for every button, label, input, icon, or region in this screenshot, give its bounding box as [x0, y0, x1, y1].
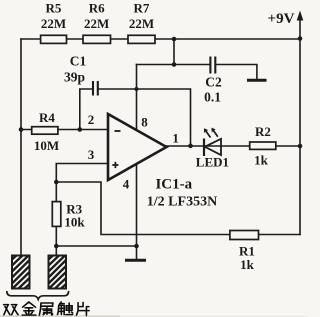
- svg-text:2: 2: [88, 112, 95, 127]
- svg-text:0.1: 0.1: [204, 90, 221, 105]
- wire bias path to R1: [56, 182, 300, 235]
- wire right rail: [299, 16, 301, 235]
- svg-text:1/2 LF353N: 1/2 LF353N: [147, 195, 217, 210]
- svg-text:+9V: +9V: [268, 11, 295, 27]
- char 金: [22, 302, 36, 315]
- node feedback crossing: [134, 87, 138, 91]
- wire R4 to pin2: [21, 129, 108, 131]
- svg-text:R4: R4: [39, 110, 55, 125]
- svg-text:R7: R7: [134, 1, 150, 16]
- svg-text:1k: 1k: [240, 257, 255, 272]
- wire top rail: [21, 38, 300, 40]
- wire R3 top: [55, 182, 57, 202]
- svg-text:C1: C1: [70, 54, 87, 69]
- node top rail branch: [172, 37, 177, 42]
- svg-text:C2: C2: [205, 75, 222, 90]
- resistor R4: [32, 110, 59, 153]
- bimetal strip right: [49, 256, 67, 289]
- LED1: [196, 128, 229, 170]
- node pin3 / R3: [54, 180, 59, 185]
- resistor R7: [128, 1, 155, 44]
- node left rail / R4: [19, 127, 24, 132]
- wire supply to C2: [137, 64, 211, 66]
- brace: [7, 291, 69, 299]
- node C1 branch: [78, 127, 83, 132]
- supply +9V: [268, 11, 304, 28]
- resistor R1: [230, 231, 259, 273]
- ground (pin4): [125, 259, 146, 262]
- resistor R6: [83, 1, 111, 44]
- node R2 / right rail: [298, 144, 303, 149]
- node feedback / output: [188, 144, 193, 149]
- resistor R2: [250, 124, 276, 168]
- node pin4 / ground row: [134, 244, 139, 249]
- caption 双金属触片: [4, 302, 89, 316]
- ground (C2): [247, 79, 267, 82]
- wire C2 to ground: [215, 65, 257, 79]
- capacitor C2: [204, 57, 222, 105]
- svg-text:R2: R2: [255, 124, 271, 139]
- char 触: [57, 302, 72, 315]
- svg-text:22M: 22M: [84, 16, 109, 31]
- svg-text:10k: 10k: [64, 214, 85, 229]
- svg-text:39p: 39p: [64, 70, 85, 85]
- wire C1 feedback to output: [98, 89, 191, 146]
- wire R3 bottom to strip: [55, 226, 57, 256]
- char 片: [76, 302, 89, 315]
- wire ground row: [56, 245, 136, 247]
- char 双: [4, 305, 18, 315]
- wire C1 left branch: [80, 89, 93, 130]
- svg-text:1: 1: [172, 131, 179, 146]
- node +9V rail: [298, 36, 303, 41]
- capacitor C1: [64, 54, 98, 96]
- scan artifacts: [0, 315, 308, 317]
- wire pin4 vertical: [136, 165, 138, 259]
- char 属: [39, 303, 53, 316]
- resistor R5: [41, 1, 67, 44]
- node supply row: [172, 62, 177, 67]
- svg-text:R5: R5: [46, 1, 62, 16]
- bimetal strip left: [12, 256, 30, 289]
- node R3 / strip: [54, 244, 59, 249]
- svg-text:IC1-a: IC1-a: [155, 177, 192, 193]
- svg-text:10M: 10M: [34, 138, 59, 153]
- wire output row: [167, 145, 301, 147]
- svg-text:3: 3: [88, 147, 95, 162]
- svg-text:22M: 22M: [41, 16, 66, 31]
- resistor R3: [52, 202, 85, 230]
- wire left rail: [20, 39, 22, 256]
- svg-text:4: 4: [123, 177, 130, 192]
- svg-text:22M: 22M: [129, 16, 154, 31]
- svg-text:LED1: LED1: [196, 155, 229, 170]
- wire pin3 row: [56, 164, 108, 183]
- svg-text:R6: R6: [89, 1, 105, 16]
- op-amp U1 IC1-a: [108, 114, 217, 210]
- svg-text:1k: 1k: [254, 153, 269, 168]
- wire pin8 vertical: [136, 65, 138, 131]
- wire top rail branch down: [173, 39, 175, 65]
- svg-text:8: 8: [141, 115, 148, 130]
